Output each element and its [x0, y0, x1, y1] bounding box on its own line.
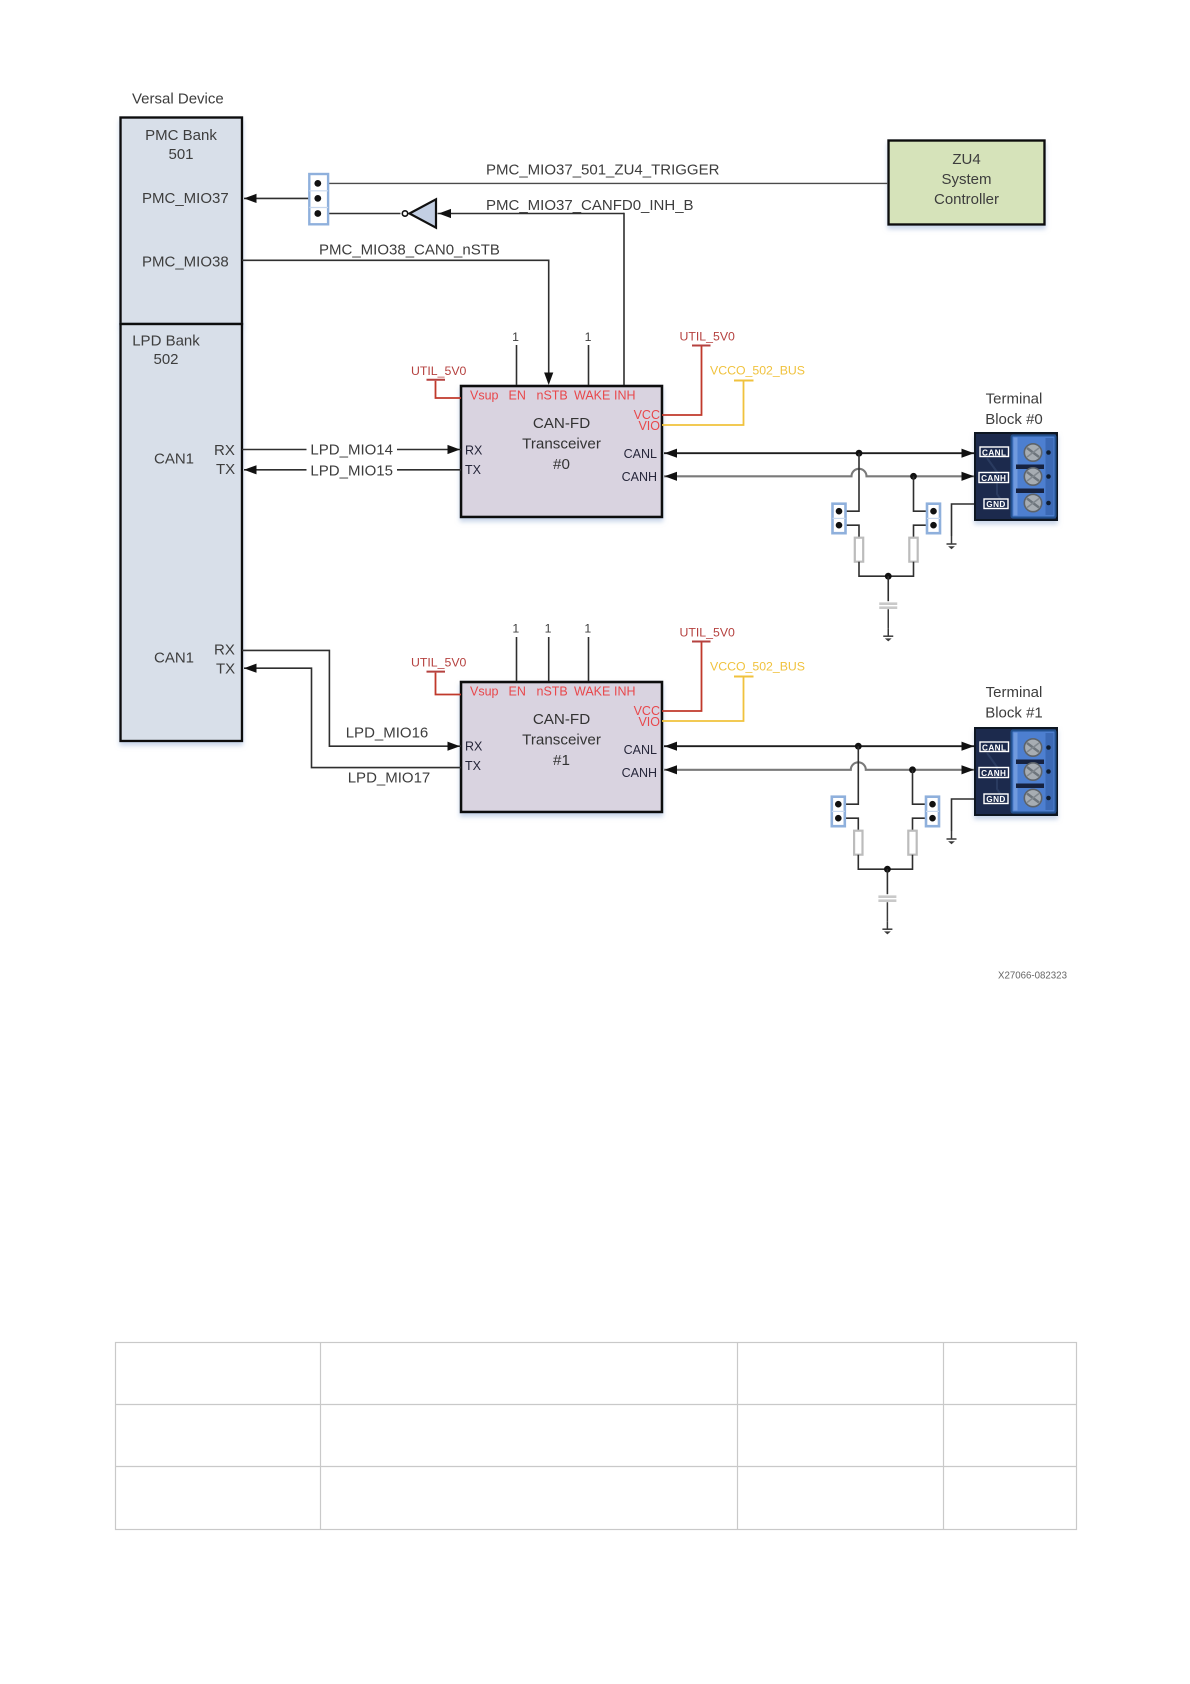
- wire terminal GND: [952, 504, 975, 536]
- svg-text:VCCO_502_BUS: VCCO_502_BUS: [710, 660, 805, 674]
- svg-text:#0: #0: [553, 456, 570, 473]
- arrowhead CANL into transceiver: [665, 742, 678, 751]
- svg-text:CANH: CANH: [981, 474, 1006, 483]
- svg-text:GND: GND: [986, 795, 1005, 804]
- wire to capacitor: [886, 869, 888, 894]
- svg-text:INH: INH: [614, 685, 636, 699]
- wire LPD_MIO15: [244, 469, 461, 471]
- wire UTIL_5V0 to Vsup: [436, 381, 462, 398]
- svg-text:Vsup: Vsup: [470, 685, 499, 699]
- svg-text:X27066-082323: X27066-082323: [998, 971, 1067, 982]
- inverter (NOT gate): [402, 211, 407, 216]
- svg-text:Vsup: Vsup: [470, 389, 499, 403]
- wire CANL: [664, 452, 974, 454]
- svg-text:502: 502: [153, 351, 178, 368]
- svg-text:1: 1: [584, 622, 591, 636]
- power tap bar yellow: [734, 380, 754, 382]
- svg-text:CAN1: CAN1: [154, 650, 194, 667]
- arrowhead CANH into terminal block: [962, 472, 975, 481]
- ground (terminal block): [947, 831, 957, 844]
- ZU4 System Controller block: [889, 141, 1045, 225]
- svg-text:LPD Bank: LPD Bank: [132, 333, 200, 350]
- wire CANL to jumper: [846, 453, 860, 511]
- terminal label CANL: [980, 447, 1009, 457]
- junction CANL: [855, 743, 862, 750]
- arrowhead into nSTB: [544, 373, 553, 386]
- svg-text:WAKE: WAKE: [574, 685, 610, 699]
- arrowhead CANH into terminal block: [962, 765, 975, 774]
- svg-text:VIO: VIO: [638, 715, 660, 729]
- jumper pin 2: [314, 195, 321, 202]
- wire to PMC_MIO37: [244, 197, 318, 199]
- svg-text:EN: EN: [509, 685, 526, 699]
- svg-text:Terminal: Terminal: [986, 390, 1043, 407]
- svg-text:CANL: CANL: [624, 447, 657, 461]
- stub WAKE U0: [588, 345, 590, 385]
- ground (capacitor): [883, 628, 893, 641]
- junction center tap: [885, 573, 892, 580]
- svg-text:ZU4: ZU4: [952, 151, 980, 168]
- svg-text:Transceiver: Transceiver: [522, 732, 601, 749]
- svg-text:nSTB: nSTB: [537, 389, 568, 403]
- svg-text:RX: RX: [465, 444, 483, 458]
- svg-text:INH: INH: [614, 389, 636, 403]
- terminal screw: [1024, 494, 1041, 511]
- stub U1: [548, 637, 550, 681]
- power tap bar UTIL_5V0: [427, 379, 446, 381]
- arrowhead into TX (lower CAN1): [244, 664, 257, 673]
- arrowhead into inverter: [439, 209, 452, 218]
- wire jumper to resistor: [913, 818, 927, 831]
- wire VCC U1: [662, 643, 702, 712]
- junction CANH: [910, 473, 917, 480]
- svg-text:TX: TX: [216, 661, 235, 678]
- wire UTIL_5V0 to Vsup: [436, 673, 462, 695]
- wire LPD_MIO17: [244, 668, 461, 767]
- svg-text:RX: RX: [214, 442, 235, 459]
- svg-text:RX: RX: [465, 740, 483, 754]
- svg-text:EN: EN: [509, 389, 526, 403]
- arrowhead into PMC_MIO37: [244, 194, 257, 203]
- ground (terminal block): [947, 536, 957, 549]
- resistor (CANL termination): [855, 538, 863, 562]
- jumper pin 1: [314, 180, 321, 187]
- terminal screw: [1024, 739, 1041, 756]
- arrowhead CANL into terminal block: [962, 742, 975, 751]
- svg-text:Transceiver: Transceiver: [522, 436, 601, 453]
- resistor (CANL termination): [854, 831, 862, 855]
- jumper pin 3: [314, 210, 321, 217]
- wire CANH to jumper: [913, 770, 927, 804]
- svg-text:CAN-FD: CAN-FD: [533, 415, 590, 432]
- terminal screw: [1024, 789, 1041, 806]
- arrowhead CANL into transceiver: [665, 449, 678, 458]
- svg-text:CANH: CANH: [622, 470, 657, 484]
- terminal label GND: [984, 499, 1008, 509]
- arrowhead CANH into transceiver: [665, 765, 678, 774]
- svg-text:1: 1: [512, 622, 519, 636]
- arrowhead into RX U0: [448, 445, 461, 454]
- svg-text:PMC_MIO37_501_ZU4_TRIGGER: PMC_MIO37_501_ZU4_TRIGGER: [486, 162, 720, 179]
- CAN-FD transceiver #0 block: [461, 386, 662, 517]
- svg-text:TX: TX: [465, 463, 482, 477]
- terminal label CANH: [979, 768, 1009, 778]
- svg-text:UTIL_5V0: UTIL_5V0: [411, 656, 467, 670]
- power tap bar UTIL_5V0: [427, 671, 446, 673]
- resistor (CANH termination): [908, 831, 916, 855]
- svg-text:VIO: VIO: [638, 419, 660, 433]
- terminal label CANL: [980, 742, 1009, 752]
- wire CANL: [664, 745, 974, 747]
- terminal screw: [1024, 763, 1041, 780]
- wire PMC_MIO37_CANFD0_INH_B: [438, 213, 625, 215]
- svg-text:TX: TX: [465, 759, 482, 773]
- wire PMC_MIO38_CAN0_nSTB: [242, 260, 549, 383]
- resistor (CANH termination): [909, 538, 917, 562]
- svg-text:PMC_MIO37: PMC_MIO37: [142, 190, 229, 207]
- svg-text:PMC_MIO37_CANFD0_INH_B: PMC_MIO37_CANFD0_INH_B: [486, 197, 694, 214]
- svg-text:501: 501: [168, 146, 193, 163]
- capacitor split termination: [879, 602, 897, 605]
- svg-text:CANL: CANL: [624, 743, 657, 757]
- arrowhead into RX U1: [448, 742, 461, 751]
- terminal label GND: [984, 794, 1008, 804]
- power tap bar: [692, 345, 711, 347]
- svg-text:UTIL_5V0: UTIL_5V0: [680, 626, 736, 640]
- svg-text:LPD_MIO15: LPD_MIO15: [310, 462, 393, 479]
- junction CANH: [909, 766, 916, 773]
- wire CANH with hop: [664, 469, 974, 476]
- stub U1: [588, 637, 590, 681]
- svg-text:UTIL_5V0: UTIL_5V0: [680, 330, 736, 344]
- svg-text:LPD_MIO17: LPD_MIO17: [348, 770, 431, 787]
- jumper (CANL termination): [833, 504, 846, 534]
- svg-text:LPD_MIO14: LPD_MIO14: [310, 442, 393, 459]
- ground (capacitor): [882, 921, 892, 934]
- terminal block #0: [975, 433, 1057, 520]
- svg-text:Block #0: Block #0: [985, 411, 1043, 428]
- svg-text:#1: #1: [553, 752, 570, 769]
- wire CANL to jumper: [845, 746, 859, 804]
- svg-text:Block #1: Block #1: [985, 705, 1043, 722]
- wire resistors to center: [859, 562, 914, 577]
- svg-text:1: 1: [545, 622, 552, 636]
- stub U1: [516, 637, 518, 681]
- net label LPD_MIO15: [307, 461, 398, 478]
- wire jumper to resistor: [846, 525, 860, 538]
- svg-text:CAN1: CAN1: [154, 451, 194, 468]
- stub EN U0: [516, 345, 518, 385]
- wire to capacitor: [887, 576, 889, 601]
- wire CANH to jumper: [914, 476, 928, 511]
- svg-text:PMC_MIO38: PMC_MIO38: [142, 254, 229, 271]
- svg-text:CANH: CANH: [622, 766, 657, 780]
- svg-text:Versal Device: Versal Device: [132, 91, 224, 108]
- arrowhead into TX (upper CAN1): [244, 465, 257, 474]
- net label LPD_MIO14: [307, 440, 398, 457]
- jumper (CANH termination): [927, 504, 940, 534]
- svg-text:CANL: CANL: [982, 743, 1006, 752]
- svg-text:RX: RX: [214, 642, 235, 659]
- svg-text:CAN-FD: CAN-FD: [533, 711, 590, 728]
- svg-text:CANL: CANL: [982, 448, 1006, 457]
- wire terminal GND: [952, 799, 975, 831]
- terminal screw: [1024, 444, 1041, 461]
- wire capacitor to ground: [887, 609, 889, 628]
- wire LPD_MIO16: [242, 650, 461, 746]
- wire VIO U0: [662, 382, 744, 426]
- svg-text:LPD_MIO16: LPD_MIO16: [346, 724, 429, 741]
- wire jumper to resistor: [914, 525, 928, 538]
- table grid: [116, 1343, 1077, 1530]
- svg-text:UTIL_5V0: UTIL_5V0: [411, 364, 467, 378]
- wire PMC_MIO37_501_ZU4_TRIGGER: [318, 182, 888, 184]
- svg-text:WAKE: WAKE: [574, 389, 610, 403]
- wire CANH with hop: [664, 762, 974, 769]
- svg-text:VCCO_502_BUS: VCCO_502_BUS: [710, 364, 805, 378]
- svg-text:GND: GND: [986, 500, 1005, 509]
- svg-text:PMC Bank: PMC Bank: [145, 127, 217, 144]
- svg-text:PMC_MIO38_CAN0_nSTB: PMC_MIO38_CAN0_nSTB: [319, 241, 500, 258]
- jumper J1 3-pin header: [309, 174, 328, 224]
- wire jumper to resistor: [845, 818, 859, 831]
- junction center tap: [884, 866, 891, 873]
- terminal label CANH: [979, 473, 1009, 483]
- jumper (CANH termination): [926, 797, 939, 827]
- svg-text:1: 1: [585, 330, 592, 344]
- svg-text:Terminal: Terminal: [986, 684, 1043, 701]
- svg-text:CANH: CANH: [981, 769, 1006, 778]
- wire INH vertical: [623, 213, 625, 385]
- svg-text:TX: TX: [216, 461, 235, 478]
- arrowhead CANL into terminal block: [962, 449, 975, 458]
- power tap bar yellow: [734, 676, 754, 678]
- wire resistors to center: [858, 855, 912, 870]
- wire jumper to inverter: [318, 213, 401, 215]
- arrowhead CANH into transceiver: [665, 472, 678, 481]
- capacitor split termination: [878, 895, 896, 898]
- Versal device LPD Bank 502 block: [121, 324, 243, 741]
- terminal block #1: [975, 728, 1057, 815]
- CAN-FD transceiver #1 block: [461, 682, 662, 812]
- svg-text:System: System: [941, 171, 991, 188]
- svg-text:1: 1: [512, 330, 519, 344]
- svg-text:nSTB: nSTB: [537, 685, 568, 699]
- jumper (CANL termination): [832, 797, 845, 827]
- junction CANL: [856, 450, 863, 457]
- wire capacitor to ground: [886, 902, 888, 921]
- terminal screw: [1024, 468, 1041, 485]
- svg-text:Controller: Controller: [934, 191, 999, 208]
- wire VIO U1: [662, 678, 744, 722]
- wire VCC U0: [662, 347, 702, 416]
- wire LPD_MIO14: [242, 449, 461, 451]
- power tap bar: [692, 641, 711, 643]
- Versal device PMC Bank 501 block: [121, 118, 243, 325]
